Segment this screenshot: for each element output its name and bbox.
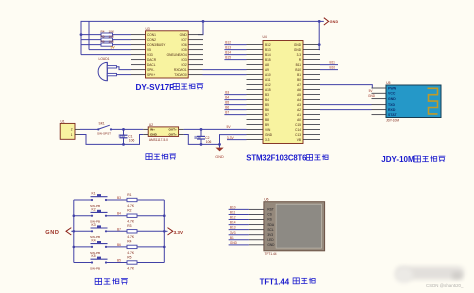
wire switch to regulator IN	[111, 128, 143, 130]
title bluetooth	[381, 155, 445, 164]
node rail junction at voice GND	[202, 20, 205, 23]
node right rail junction	[163, 214, 166, 217]
wire U1 pin1 ground run	[80, 135, 143, 145]
wire V5 riser	[88, 21, 90, 49]
svg-text:SW-SPST: SW-SPST	[97, 131, 111, 135]
svg-text:V5: V5	[147, 48, 151, 52]
svg-text:3V3: 3V3	[267, 233, 273, 237]
title voice module	[136, 83, 204, 92]
svg-text:CON2: CON2	[147, 38, 156, 42]
svg-text:B7: B7	[265, 113, 269, 117]
wire rail to button K5	[74, 262, 92, 264]
svg-text:R5: R5	[101, 35, 105, 39]
svg-text:GND: GND	[330, 20, 339, 24]
wire SPK- net	[117, 67, 132, 70]
svg-text:B11: B11	[296, 63, 302, 67]
svg-text:B10: B10	[330, 66, 336, 70]
mcu pins left	[247, 45, 264, 140]
svg-text:C13: C13	[295, 133, 301, 137]
net label GND (bluetooth)	[368, 94, 376, 98]
wire resistor R4 leads	[81, 34, 131, 36]
connector U1	[60, 119, 75, 139]
svg-text:4.7K: 4.7K	[127, 235, 135, 239]
wire + net label B15	[224, 56, 246, 60]
svg-text:K3: K3	[92, 223, 96, 227]
svg-text:B6: B6	[117, 243, 121, 247]
wire resistor R2 to rail	[137, 215, 164, 217]
svg-text:RXD: RXD	[388, 108, 396, 112]
svg-text:GND: GND	[45, 230, 59, 236]
node left rail junction	[73, 246, 76, 249]
svg-text:GND: GND	[388, 97, 396, 101]
wire + net label B4	[224, 96, 246, 100]
wire + net label B7	[224, 111, 246, 115]
svg-text:U2: U2	[149, 123, 153, 127]
resistor R5 4.7K	[127, 255, 137, 270]
svg-text:R4: R4	[127, 240, 131, 244]
svg-text:SCL: SCL	[267, 228, 273, 232]
svg-text:B11: B11	[230, 211, 236, 215]
svg-text:B4: B4	[225, 96, 229, 100]
mcu U4 STM32F103C8T6	[263, 35, 304, 144]
svg-text:VCC: VCC	[388, 92, 396, 96]
wire V5 pin net	[89, 49, 131, 51]
svg-text:B14: B14	[230, 221, 236, 225]
node GND-rail junction	[318, 20, 321, 23]
voice module pins right	[188, 35, 203, 75]
button K3 SW-PB	[90, 223, 108, 239]
resistor R2 4.7K	[127, 209, 137, 224]
svg-text:R3: R3	[127, 224, 131, 228]
svg-text:ONELINE/IO4: ONELINE/IO4	[167, 53, 187, 57]
svg-text:4.7K: 4.7K	[127, 204, 135, 208]
resistor R4 10K	[101, 30, 115, 37]
net label B5	[117, 259, 121, 263]
wire button K1 to resistor R1	[106, 199, 127, 201]
wire + net label 3.3V	[227, 136, 247, 140]
svg-text:B4: B4	[265, 98, 269, 102]
wire button K4 to resistor R4	[106, 246, 127, 248]
regulator U2 AMS1117-5.0	[148, 123, 178, 142]
node right rail junction	[163, 246, 166, 249]
svg-text:106: 106	[206, 140, 212, 144]
wire + net label GND (tft)	[229, 241, 249, 245]
wire resistor R3 to rail	[137, 230, 164, 232]
svg-text:B3: B3	[117, 196, 121, 200]
svg-text:A3: A3	[297, 103, 301, 107]
capacitor C1 106	[119, 129, 135, 144]
net label B3	[117, 196, 121, 200]
voice module U3 DY-SV17F	[146, 27, 189, 78]
svg-text:B0: B0	[297, 78, 301, 82]
svg-text:5V: 5V	[111, 46, 116, 50]
svg-text:CSDN @shan520_: CSDN @shan520_	[426, 283, 464, 288]
svg-text:IO5: IO5	[182, 48, 187, 52]
svg-text:B9: B9	[265, 123, 269, 127]
net label 5V	[227, 125, 232, 129]
wire + net label B13 (tft)	[229, 226, 249, 230]
svg-text:B3: B3	[225, 91, 229, 95]
svg-text:OUT+: OUT+	[168, 133, 177, 137]
svg-text:U5: U5	[386, 81, 390, 85]
wire SPK+ net	[117, 74, 132, 76]
svg-text:4.7K: 4.7K	[127, 220, 135, 224]
wire resistor R6 leads	[81, 44, 131, 46]
svg-text:IO2: IO2	[182, 63, 187, 67]
wire A7 to PWN	[320, 85, 372, 88]
net label B7	[117, 227, 121, 231]
svg-text:B1: B1	[230, 236, 234, 240]
svg-text:10K: 10K	[109, 40, 115, 44]
node C2 top junction	[200, 128, 203, 131]
wire + net label 3V3 (tft)	[229, 231, 249, 235]
svg-text:GND: GND	[180, 33, 188, 37]
net label 5V (bluetooth VCC)	[369, 89, 374, 93]
resistor R1 4.7K	[127, 193, 137, 208]
svg-text:VIN: VIN	[265, 128, 271, 132]
wire + net label B14 (tft)	[229, 221, 249, 225]
svg-text:C15: C15	[295, 123, 301, 127]
svg-text:SPK-: SPK-	[147, 68, 154, 72]
wire button left rail	[73, 200, 75, 263]
svg-text:A8: A8	[265, 63, 269, 67]
svg-text:R1: R1	[127, 193, 131, 197]
svg-text:B7: B7	[117, 227, 121, 231]
svg-text:B12: B12	[230, 216, 236, 220]
svg-text:V33: V33	[147, 53, 153, 57]
wire resistor R5 to rail	[137, 262, 164, 264]
svg-text:3.3: 3.3	[297, 53, 302, 57]
power port GND (buttons)	[45, 228, 74, 236]
svg-text:B15: B15	[225, 56, 231, 60]
svg-text:IO6: IO6	[182, 43, 187, 47]
svg-text:SDA: SDA	[267, 223, 274, 227]
node rail-resistor junction	[80, 33, 83, 36]
loudspeaker LOUD1	[98, 57, 116, 81]
switch SK1 SW-SPST	[97, 121, 112, 135]
svg-text:SW-PB: SW-PB	[90, 266, 100, 270]
svg-text:CON1: CON1	[147, 33, 156, 37]
svg-text:SPK+: SPK+	[147, 73, 155, 77]
svg-text:B12: B12	[225, 41, 231, 45]
svg-text:A12: A12	[265, 83, 271, 87]
node ground branch junction	[218, 143, 221, 146]
svg-text:DACL: DACL	[147, 63, 156, 67]
svg-text:A0: A0	[297, 118, 301, 122]
svg-text:TXD: TXD	[388, 103, 395, 107]
title buttons	[95, 278, 128, 284]
title tft	[260, 277, 316, 286]
svg-text:STM32F103C8T6: STM32F103C8T6	[246, 154, 307, 163]
svg-text:2: 2	[71, 128, 73, 132]
svg-text:K4: K4	[92, 239, 96, 243]
wire + net label B12	[224, 41, 246, 45]
svg-text:B10: B10	[230, 206, 236, 210]
svg-text:3.3V: 3.3V	[174, 230, 184, 235]
wire regulator OUT2 ground run	[184, 135, 220, 145]
wire rail to button K2	[74, 215, 92, 217]
svg-text:LED: LED	[267, 238, 274, 242]
svg-text:3.3: 3.3	[265, 138, 270, 142]
button K5 SW-PB	[90, 254, 108, 270]
svg-text:LOUD1: LOUD1	[99, 57, 110, 61]
svg-text:B3: B3	[265, 93, 269, 97]
tft screen U6 TFT1.44	[264, 197, 325, 250]
mcu pins right	[303, 45, 320, 140]
wire MCU GND pins to rail	[318, 21, 321, 49]
svg-text:STAT: STAT	[388, 113, 397, 117]
svg-text:R4: R4	[101, 30, 105, 34]
wire + net label B5	[224, 101, 246, 105]
svg-text:A7: A7	[297, 83, 301, 87]
svg-text:OUT+: OUT+	[168, 128, 177, 132]
wire V33 pin net	[81, 54, 131, 56]
node left rail junction	[73, 214, 76, 217]
svg-text:C14: C14	[295, 128, 301, 132]
svg-text:B10: B10	[295, 68, 301, 72]
wire resistor R1 to rail	[137, 199, 164, 201]
svg-text:GND: GND	[265, 133, 273, 137]
svg-text:GND: GND	[294, 48, 302, 52]
watermark blur	[395, 267, 464, 284]
wire ground branch to MCU GND	[220, 135, 247, 145]
svg-text:1: 1	[71, 133, 73, 137]
svg-text:3.3V: 3.3V	[227, 136, 235, 140]
svg-text:B14: B14	[265, 53, 271, 57]
svg-text:B13: B13	[230, 226, 236, 230]
svg-text:K2: K2	[92, 207, 96, 211]
svg-text:B8: B8	[265, 118, 269, 122]
node C2 bottom junction	[200, 143, 203, 146]
wire + net label B13	[224, 46, 246, 50]
resistor R6 10K	[101, 40, 115, 47]
net label B6	[117, 243, 121, 247]
node left rail junction	[73, 230, 76, 233]
voice module pins left	[131, 35, 146, 75]
ground symbol GND	[215, 144, 224, 159]
svg-text:B6: B6	[265, 108, 269, 112]
wire 5V rail to MCU VIN	[184, 128, 247, 130]
svg-text:B12: B12	[265, 43, 271, 47]
button K2 SW-PB	[90, 207, 108, 223]
regulator U2 pins	[143, 129, 183, 134]
node MCU GND junction	[318, 43, 321, 46]
svg-text:VB: VB	[297, 138, 301, 142]
svg-text:SK1: SK1	[99, 121, 105, 125]
antenna meander	[428, 88, 438, 114]
svg-text:B7: B7	[225, 111, 229, 115]
svg-text:CS: CS	[267, 213, 271, 217]
power port 5V (voice)	[111, 46, 116, 50]
node C1 bottom junction	[122, 143, 125, 146]
svg-text:GND: GND	[230, 241, 238, 245]
svg-text:B5: B5	[265, 103, 269, 107]
svg-text:10K: 10K	[109, 35, 115, 39]
wire resistor R5 leads	[81, 39, 131, 41]
svg-text:K1: K1	[92, 192, 96, 196]
wire button K3 to resistor R3	[106, 230, 127, 232]
resistor R5 10K	[101, 35, 115, 42]
wire + net label B11	[320, 61, 338, 65]
wire button right rail	[163, 200, 165, 263]
svg-text:R2: R2	[127, 209, 131, 213]
wire + net label B10 (tft)	[229, 206, 249, 210]
svg-text:U3: U3	[146, 27, 150, 31]
button K1 SW-PB	[90, 192, 108, 208]
wire + net label B14	[224, 51, 246, 55]
svg-text:GND: GND	[150, 133, 158, 137]
svg-text:U4: U4	[263, 35, 267, 39]
wire A3 to TXD	[320, 104, 372, 106]
svg-text:B1: B1	[297, 73, 301, 77]
wire GND rail top	[81, 21, 319, 54]
svg-text:JDY-10M: JDY-10M	[381, 155, 415, 164]
net label B4	[117, 212, 121, 216]
wire + net label B6	[224, 106, 246, 110]
button K4 SW-PB	[90, 239, 108, 255]
wire + net label B1 (tft)	[229, 236, 249, 240]
svg-text:GND: GND	[215, 155, 224, 159]
bluetooth pins	[372, 88, 387, 115]
svg-text:B14: B14	[225, 51, 231, 55]
svg-text:B11: B11	[330, 61, 336, 65]
svg-text:DY-SV17F: DY-SV17F	[136, 83, 175, 92]
svg-text:A15: A15	[265, 88, 271, 92]
wire TXD/IO0 to A10	[203, 74, 247, 76]
svg-text:106: 106	[129, 139, 135, 143]
watermark text CSDN	[426, 283, 464, 288]
svg-text:K5: K5	[92, 254, 96, 258]
svg-text:R5: R5	[127, 255, 131, 259]
wire + net label B10	[320, 66, 338, 70]
svg-text:AMS1117-5.0: AMS1117-5.0	[149, 138, 168, 142]
svg-text:TFT1.44: TFT1.44	[265, 252, 277, 256]
svg-text:A10: A10	[265, 73, 271, 77]
svg-text:GND: GND	[368, 94, 376, 98]
svg-text:DACR: DACR	[147, 58, 157, 62]
svg-text:JDY-10M: JDY-10M	[386, 118, 399, 122]
svg-text:10K: 10K	[109, 30, 115, 34]
resistor R4 4.7K	[127, 240, 137, 255]
wire resistor R4 to rail	[137, 246, 164, 248]
svg-text:B13: B13	[265, 48, 271, 52]
svg-text:B5: B5	[117, 259, 121, 263]
svg-text:A4: A4	[297, 98, 301, 102]
wire button K2 to resistor R2	[106, 215, 127, 217]
value label TFT1.44	[265, 252, 277, 256]
capacitor C2 106	[194, 129, 211, 144]
wire A2 to RXD	[320, 109, 372, 111]
power port GND top	[319, 18, 338, 25]
title mcu	[246, 154, 328, 163]
wire + net label B12 (tft)	[229, 216, 249, 220]
svg-text:U1: U1	[61, 119, 65, 123]
bluetooth module U5 JDY-10M	[386, 81, 441, 118]
title regulator	[146, 154, 176, 160]
wire + net label B11 (tft)	[229, 211, 249, 215]
svg-text:PWN: PWN	[388, 86, 397, 90]
wire rail to button K3	[74, 230, 92, 232]
node right rail junction	[163, 230, 166, 233]
svg-text:3V3: 3V3	[230, 231, 236, 235]
svg-text:A2: A2	[297, 108, 301, 112]
svg-text:GND: GND	[267, 243, 275, 247]
wire + net label B3	[224, 91, 246, 95]
wire button K5 to resistor R5	[106, 262, 127, 264]
svg-text:A9: A9	[265, 68, 269, 72]
svg-text:TXD/IO0: TXD/IO0	[174, 73, 187, 77]
value label JDY-10M	[386, 118, 399, 122]
svg-text:TFT1.44: TFT1.44	[260, 277, 290, 286]
svg-text:B13: B13	[225, 46, 231, 50]
svg-text:B6: B6	[225, 106, 229, 110]
svg-text:A11: A11	[265, 78, 271, 82]
resistor R3 4.7K	[127, 224, 137, 239]
svg-text:CON3/BUSY: CON3/BUSY	[147, 43, 166, 47]
svg-text:B4: B4	[117, 212, 121, 216]
power port 3.3V (buttons)	[164, 228, 184, 235]
svg-text:GND: GND	[294, 43, 302, 47]
svg-text:U6: U6	[264, 197, 268, 201]
svg-text:IN+: IN+	[150, 128, 155, 132]
svg-text:IO7: IO7	[182, 38, 187, 42]
svg-text:A5: A5	[297, 93, 301, 97]
svg-text:A6: A6	[297, 88, 301, 92]
wire rail to button K1	[74, 199, 92, 201]
wire rail to button K4	[74, 246, 92, 248]
svg-text:RXD/IO1: RXD/IO1	[174, 68, 187, 72]
svg-text:RS: RS	[267, 218, 271, 222]
svg-text:B5: B5	[225, 101, 229, 105]
wire U1 to switch	[80, 128, 98, 130]
svg-text:B15: B15	[265, 58, 271, 62]
svg-text:4.7K: 4.7K	[127, 251, 135, 255]
node C1 top junction	[122, 128, 125, 131]
svg-text:4.7K: 4.7K	[127, 266, 135, 270]
connector U1 pins	[75, 129, 80, 134]
svg-text:R6: R6	[101, 40, 105, 44]
svg-text:5V: 5V	[227, 125, 232, 129]
svg-text:IO3: IO3	[182, 58, 187, 62]
svg-text:RST: RST	[267, 208, 273, 212]
tft pins	[249, 209, 264, 244]
wire RXD/IO1 to A9	[203, 69, 247, 71]
svg-text:A1: A1	[297, 113, 301, 117]
wire voice GND drop	[198, 21, 203, 34]
